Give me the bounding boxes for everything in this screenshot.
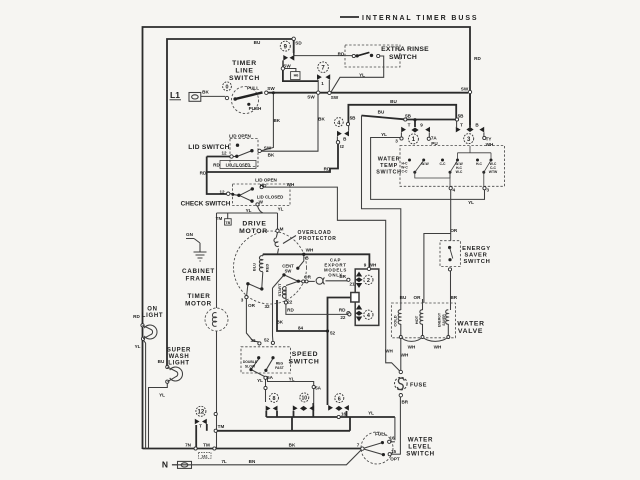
svg-text:RD: RD <box>338 52 345 57</box>
svg-text:BK: BK <box>202 90 209 95</box>
svg-text:4: 4 <box>453 188 456 193</box>
svg-text:1&1: 1&1 <box>201 454 208 458</box>
svg-text:MOTOR: MOTOR <box>239 228 268 235</box>
svg-text:SW: SW <box>285 269 292 274</box>
svg-text:YL: YL <box>368 411 374 416</box>
svg-text:SWITCH: SWITCH <box>288 359 319 366</box>
svg-text:YL: YL <box>468 200 474 205</box>
svg-text:3: 3 <box>487 188 490 193</box>
svg-text:21: 21 <box>349 282 355 287</box>
svg-text:TM: TM <box>218 424 225 429</box>
svg-text:FUSE: FUSE <box>410 382 427 388</box>
svg-text:1: 1 <box>412 137 416 143</box>
svg-text:ENERGY: ENERGY <box>438 312 442 327</box>
svg-text:SW: SW <box>267 86 275 91</box>
svg-text:3: 3 <box>241 298 244 303</box>
svg-text:PU: PU <box>431 141 438 146</box>
svg-text:INTERNAL TIMER BUSS: INTERNAL TIMER BUSS <box>362 15 478 22</box>
svg-text:RD: RD <box>339 308 346 313</box>
svg-text:REG: REG <box>276 362 284 366</box>
svg-text:WH: WH <box>385 349 393 354</box>
svg-text:YL: YL <box>135 344 141 349</box>
svg-text:SWITCH: SWITCH <box>229 75 260 82</box>
svg-text:YL: YL <box>289 377 295 382</box>
svg-text:SLOW: SLOW <box>245 365 256 369</box>
svg-text:SWITCH: SWITCH <box>376 170 401 176</box>
svg-text:TB: TB <box>225 221 230 225</box>
svg-text:CHECK SWITCH: CHECK SWITCH <box>181 201 231 208</box>
svg-text:T: T <box>460 123 463 128</box>
svg-text:TY: TY <box>486 137 492 142</box>
svg-text:1: 1 <box>321 81 324 86</box>
svg-text:BLU: BLU <box>252 263 257 271</box>
svg-text:52: 52 <box>264 338 270 343</box>
svg-text:H6: H6 <box>294 74 299 78</box>
svg-text:GN: GN <box>186 232 194 237</box>
svg-text:84: 84 <box>298 326 304 331</box>
svg-text:I2: I2 <box>340 144 344 149</box>
svg-text:36: 36 <box>250 338 256 343</box>
svg-text:3: 3 <box>467 137 471 143</box>
svg-text:SWITCH: SWITCH <box>406 451 435 458</box>
svg-text:LEVEL: LEVEL <box>408 444 431 451</box>
svg-text:BR: BR <box>339 274 346 279</box>
svg-text:52: 52 <box>330 331 336 336</box>
svg-text:BK: BK <box>276 320 283 325</box>
svg-text:TM: TM <box>216 216 223 221</box>
svg-text:RD: RD <box>133 314 140 319</box>
svg-text:SUPER: SUPER <box>167 348 191 354</box>
svg-text:WH: WH <box>434 345 442 350</box>
svg-text:LIGHT: LIGHT <box>142 313 164 319</box>
svg-text:TEMP: TEMP <box>380 163 398 169</box>
svg-text:L1: L1 <box>170 90 180 100</box>
svg-text:12: 12 <box>219 190 225 195</box>
svg-text:RD: RD <box>474 56 481 61</box>
svg-text:COLD: COLD <box>393 315 398 326</box>
svg-text:BU: BU <box>158 359 165 364</box>
svg-text:BK: BK <box>273 118 280 123</box>
svg-text:FULL: FULL <box>375 432 387 437</box>
svg-text:TIMER: TIMER <box>232 60 257 67</box>
svg-text:ENERGY: ENERGY <box>462 246 491 252</box>
svg-text:SD: SD <box>295 41 302 46</box>
svg-text:B: B <box>475 123 479 128</box>
svg-text:CABINET: CABINET <box>182 268 215 275</box>
svg-text:SW: SW <box>307 95 315 100</box>
svg-text:WATER: WATER <box>378 157 401 163</box>
svg-text:YL: YL <box>159 393 165 398</box>
svg-text:T: T <box>199 424 202 429</box>
svg-text:3: 3 <box>395 139 398 144</box>
svg-text:WH: WH <box>408 345 416 350</box>
svg-text:BU: BU <box>378 110 385 115</box>
svg-text:OR: OR <box>414 295 422 300</box>
svg-text:16: 16 <box>389 436 395 441</box>
svg-text:10: 10 <box>302 396 308 402</box>
svg-text:LINE: LINE <box>235 68 253 75</box>
svg-text:PULL: PULL <box>247 86 259 91</box>
svg-text:7: 7 <box>357 443 360 448</box>
svg-text:WH: WH <box>287 182 295 187</box>
svg-text:5B: 5B <box>350 116 357 121</box>
svg-text:N: N <box>162 460 168 470</box>
svg-text:LID OPEN: LID OPEN <box>229 134 251 139</box>
svg-text:C-C: C-C <box>401 170 408 174</box>
svg-text:RD: RD <box>213 163 220 168</box>
svg-text:BN: BN <box>249 459 256 464</box>
svg-text:SWITCH: SWITCH <box>389 54 417 61</box>
svg-text:12: 12 <box>221 151 227 156</box>
svg-text:WH: WH <box>369 263 377 268</box>
svg-text:BK: BK <box>268 153 275 158</box>
svg-text:SWITCH: SWITCH <box>463 259 490 265</box>
svg-text:W-C: W-C <box>456 170 463 174</box>
svg-text:DRIVE: DRIVE <box>242 221 266 228</box>
svg-text:SPEED: SPEED <box>292 351 319 358</box>
svg-text:SW: SW <box>283 64 291 69</box>
svg-text:FAST: FAST <box>275 366 285 370</box>
svg-text:4: 4 <box>337 120 340 126</box>
svg-text:SW: SW <box>461 87 469 92</box>
svg-text:SW: SW <box>264 146 272 151</box>
svg-text:H-C: H-C <box>476 162 483 166</box>
svg-text:YL: YL <box>278 207 284 212</box>
svg-text:9: 9 <box>420 123 423 128</box>
svg-text:RD: RD <box>324 167 331 172</box>
svg-text:16: 16 <box>341 412 347 417</box>
svg-text:BK: BK <box>289 443 296 448</box>
svg-text:5B: 5B <box>458 114 465 119</box>
svg-text:YL: YL <box>359 73 365 78</box>
svg-text:9: 9 <box>284 44 288 50</box>
svg-text:M: M <box>280 227 284 232</box>
svg-text:0: 0 <box>226 85 229 91</box>
svg-text:RD: RD <box>260 183 267 188</box>
svg-text:22: 22 <box>287 300 293 305</box>
svg-text:8: 8 <box>273 396 276 402</box>
svg-text:5A: 5A <box>267 375 274 380</box>
svg-text:15: 15 <box>391 449 397 454</box>
svg-text:BU: BU <box>400 295 407 300</box>
svg-text:PROTECTOR: PROTECTOR <box>299 236 337 242</box>
svg-text:TIMER: TIMER <box>187 293 210 300</box>
svg-text:RED: RED <box>265 264 270 273</box>
svg-text:BR: BR <box>450 295 457 300</box>
svg-text:7: 7 <box>321 66 325 72</box>
svg-text:WH: WH <box>486 142 494 147</box>
svg-text:YL: YL <box>381 132 387 137</box>
svg-text:T: T <box>408 123 411 128</box>
svg-text:9: 9 <box>364 263 367 268</box>
svg-text:MOTOR: MOTOR <box>185 301 212 308</box>
svg-text:EXTRA RINSE: EXTRA RINSE <box>381 46 429 53</box>
svg-text:BU: BU <box>254 40 261 45</box>
svg-text:WH: WH <box>306 248 314 253</box>
svg-text:6: 6 <box>338 396 341 402</box>
svg-text:B: B <box>305 256 309 261</box>
svg-text:5B: 5B <box>405 114 412 119</box>
svg-text:OR: OR <box>450 228 458 233</box>
svg-text:TM: TM <box>203 443 210 448</box>
svg-text:W-W: W-W <box>421 162 429 166</box>
svg-text:HOT: HOT <box>414 315 419 324</box>
svg-text:WH: WH <box>401 353 409 358</box>
svg-text:WATER: WATER <box>408 437 433 444</box>
svg-text:7L: 7L <box>221 459 227 464</box>
svg-text:5A: 5A <box>315 386 322 391</box>
svg-text:32: 32 <box>264 304 270 309</box>
svg-text:RD: RD <box>287 308 294 313</box>
svg-text:RD: RD <box>200 171 207 176</box>
svg-text:ON: ON <box>147 307 157 313</box>
svg-text:START: START <box>277 283 282 297</box>
svg-text:LID OPEN: LID OPEN <box>255 178 277 183</box>
svg-text:W: W <box>259 200 264 205</box>
svg-text:YL: YL <box>257 378 263 383</box>
svg-text:LIGHT: LIGHT <box>168 361 190 367</box>
svg-text:PUSH: PUSH <box>249 106 262 111</box>
svg-text:7N: 7N <box>185 443 192 448</box>
svg-text:OR: OR <box>304 275 312 280</box>
svg-text:B: B <box>343 136 347 141</box>
svg-text:YL: YL <box>246 208 252 213</box>
svg-text:SAVER: SAVER <box>442 314 446 326</box>
svg-text:OR: OR <box>248 303 256 308</box>
svg-text:22: 22 <box>340 315 346 320</box>
svg-text:12: 12 <box>198 410 205 416</box>
svg-text:7A: 7A <box>431 136 438 141</box>
svg-text:WASH: WASH <box>169 354 190 360</box>
svg-text:VALVE: VALVE <box>458 328 483 335</box>
svg-text:LID CLOSED: LID CLOSED <box>226 163 251 168</box>
svg-text:OPT: OPT <box>390 457 400 462</box>
svg-text:4: 4 <box>367 313 370 319</box>
svg-text:FRAME: FRAME <box>186 276 212 283</box>
svg-text:BU: BU <box>390 99 397 104</box>
svg-text:C-C: C-C <box>439 162 446 166</box>
svg-text:DOUBLE: DOUBLE <box>243 360 258 364</box>
svg-text:WATER: WATER <box>457 321 485 328</box>
svg-text:SW: SW <box>331 95 339 100</box>
svg-text:BR: BR <box>401 400 408 405</box>
svg-text:BK: BK <box>318 117 325 122</box>
svg-text:WTW: WTW <box>489 170 498 174</box>
svg-text:SAVER: SAVER <box>464 253 487 259</box>
svg-text:2: 2 <box>367 278 370 284</box>
